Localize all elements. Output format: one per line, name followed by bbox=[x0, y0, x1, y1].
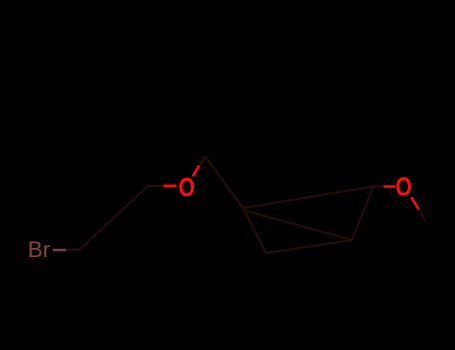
svg-text:Br: Br bbox=[28, 237, 51, 262]
wire chain C2-C3 bbox=[114, 186, 148, 218]
ring bond C6-C8 bottom bbox=[266, 240, 352, 253]
bond C3-O1 (O half) bbox=[164, 185, 177, 188]
svg-text:O: O bbox=[179, 174, 195, 203]
svg-text:O: O bbox=[396, 174, 412, 203]
bond Br-C1 (C half) bbox=[66, 248, 80, 251]
bond O2-CH3 (C half) bbox=[419, 209, 426, 220]
bond C10-O2 (C half) bbox=[374, 185, 384, 187]
bond O1-C4 (C half) bbox=[199, 156, 205, 165]
wire chain C1-C2 bbox=[80, 218, 114, 250]
ring bond C5-C10 top long bbox=[243, 187, 374, 209]
ring bond C4-C5 bbox=[205, 156, 243, 208]
ring bond C5-C8 inner diagonal bbox=[243, 210, 352, 240]
ring bond C5-C6 bbox=[243, 208, 266, 253]
bond O1-C4 (O half) bbox=[193, 166, 200, 177]
bond C3-O1 (C half) bbox=[148, 185, 164, 187]
ring bond C8-C10 bbox=[352, 187, 374, 241]
bond Br-C1 (Br half) bbox=[53, 249, 66, 252]
bond O2-CH3 (O half) bbox=[411, 197, 418, 209]
bond C10-O2 (O half) bbox=[384, 185, 396, 188]
